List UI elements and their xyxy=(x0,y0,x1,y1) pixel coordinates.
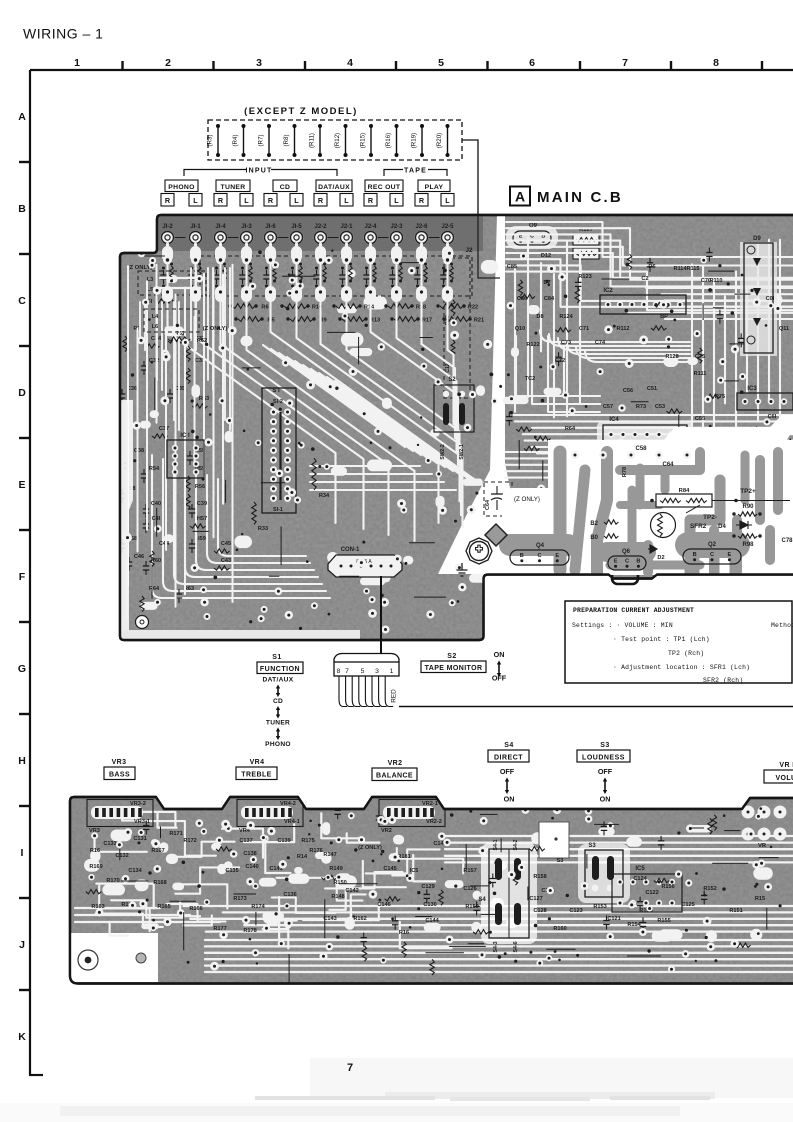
wire hbundle top 2 xyxy=(506,234,793,286)
svg-text:S2: S2 xyxy=(447,653,457,660)
diamond pad (Z only) xyxy=(485,524,507,546)
junction xyxy=(651,458,653,460)
junction xyxy=(287,856,290,859)
junction xyxy=(311,447,315,451)
etched halo S3 xyxy=(578,844,630,903)
diode D4 xyxy=(718,521,752,530)
svg-text:L4: L4 xyxy=(152,314,159,320)
resistor R13 xyxy=(342,317,365,322)
svg-text:R175: R175 xyxy=(301,838,314,844)
wire corner curve 4 xyxy=(196,471,314,570)
node xyxy=(625,359,634,368)
junction jack J2-5 xyxy=(446,258,449,261)
resistor column 0 xyxy=(170,266,174,280)
junction xyxy=(146,899,149,902)
capacitor C46 xyxy=(126,557,132,571)
resistor column 5 xyxy=(299,266,303,280)
node xyxy=(261,606,268,613)
node S1 pin R1 xyxy=(284,418,291,425)
node xyxy=(639,335,648,344)
junction xyxy=(373,280,376,283)
node xyxy=(712,485,720,493)
svg-text:JI-2: JI-2 xyxy=(162,224,173,230)
svg-text:5: 5 xyxy=(438,57,444,69)
pad cluster xyxy=(645,509,657,520)
node xyxy=(284,903,290,909)
node xyxy=(665,336,672,343)
node CON-1 pin 2 xyxy=(347,562,354,569)
wire link xyxy=(725,380,739,382)
resistor R11 xyxy=(309,124,323,157)
mount hole (upper board) xyxy=(136,616,149,629)
wire jack JI-2 lead xyxy=(166,244,169,258)
svg-text:C38: C38 xyxy=(134,448,144,454)
resistor mark xyxy=(86,889,102,893)
capacitor mark xyxy=(647,258,653,272)
capacitor mark xyxy=(601,821,607,835)
svg-text:8: 8 xyxy=(337,668,341,675)
wire column JI-4 run xyxy=(221,252,389,535)
svg-text:ON: ON xyxy=(504,795,515,804)
wire vdrop 4 xyxy=(735,271,737,465)
pot VR3 pins xyxy=(87,800,153,835)
svg-text:R158: R158 xyxy=(533,874,546,880)
node xyxy=(650,528,658,536)
node xyxy=(154,599,161,606)
svg-text:C137: C137 xyxy=(239,838,252,844)
wire midblock 4 xyxy=(580,336,600,404)
capacitor C36 xyxy=(119,389,125,403)
svg-text:C135: C135 xyxy=(225,868,238,874)
junction xyxy=(685,929,688,932)
junction xyxy=(667,345,670,348)
node xyxy=(378,343,386,351)
junction xyxy=(362,541,365,544)
etched white zone bottom-right xyxy=(548,415,793,575)
resistor mark xyxy=(430,959,434,975)
node S1 pin R3 xyxy=(284,437,291,444)
junction xyxy=(286,307,290,311)
svg-text:2: 2 xyxy=(165,57,171,69)
pad cluster xyxy=(393,835,404,845)
node xyxy=(675,870,682,877)
wire hbundle top 7 xyxy=(506,265,793,301)
junction xyxy=(162,285,165,288)
junction xyxy=(198,263,201,266)
svg-text:S4-6: S4-6 xyxy=(513,941,519,952)
node xyxy=(255,440,261,446)
svg-text:R14: R14 xyxy=(364,305,375,311)
resistor column 4 xyxy=(273,266,277,280)
pad keyhole2 jack J2-2 xyxy=(315,286,326,302)
junction xyxy=(341,285,344,288)
node xyxy=(585,815,592,822)
capacitor C35 xyxy=(167,389,173,403)
capacitor R58 xyxy=(119,539,125,553)
node xyxy=(406,875,413,882)
wire bundle 3 xyxy=(244,924,793,926)
copper finger xyxy=(709,530,719,572)
node IC5 pin top 4 xyxy=(669,879,675,885)
resistor R20 xyxy=(436,124,450,157)
svg-text:R168: R168 xyxy=(153,880,166,886)
diode D2 xyxy=(648,545,665,561)
node xyxy=(391,853,400,862)
pad cluster xyxy=(430,429,440,437)
wire midblock 3 xyxy=(564,346,600,396)
svg-text:8: 8 xyxy=(713,57,719,69)
node xyxy=(397,499,406,508)
node CON-1 pin 3 xyxy=(357,562,364,569)
pot VR4 TREBLE label xyxy=(236,759,277,780)
node xyxy=(469,391,476,398)
wire maze 0 xyxy=(325,872,402,888)
svg-text:R122: R122 xyxy=(526,342,539,348)
junction xyxy=(354,848,357,851)
pad cluster xyxy=(663,355,678,367)
svg-text:VR I: VR I xyxy=(779,762,793,769)
wire link xyxy=(631,401,649,403)
resistor R18 xyxy=(388,304,411,309)
svg-text:C130: C130 xyxy=(423,902,436,908)
svg-text:R22: R22 xyxy=(468,305,478,311)
junction xyxy=(247,368,250,371)
svg-text:IC I: IC I xyxy=(180,433,190,439)
junction xyxy=(548,917,551,920)
svg-text:R128: R128 xyxy=(665,354,678,360)
wire link xyxy=(261,482,285,484)
node xyxy=(580,504,587,511)
junction xyxy=(241,285,244,288)
S1 arrow 2 xyxy=(277,709,279,716)
node xyxy=(137,337,145,345)
pad cluster xyxy=(348,270,356,278)
svg-text:D4: D4 xyxy=(718,524,726,530)
junction xyxy=(291,285,294,288)
junction xyxy=(299,281,302,284)
junction xyxy=(462,304,465,307)
node S1 pin L9 xyxy=(270,495,277,502)
pad cluster xyxy=(364,296,387,310)
svg-text:VR2-1: VR2-1 xyxy=(422,801,438,807)
pot VR2 BALANCE label xyxy=(372,760,417,781)
node S1 pin R7 xyxy=(284,476,291,483)
border frame top line xyxy=(30,69,793,71)
switch S1 (on board) xyxy=(262,388,296,513)
node xyxy=(286,290,293,297)
junction jack2 JI-3 xyxy=(245,290,248,293)
wire lower-left 13 xyxy=(329,882,345,910)
junction xyxy=(754,885,757,888)
node xyxy=(279,860,287,868)
svg-text:(R11): (R11) xyxy=(309,133,316,148)
junction xyxy=(260,317,263,320)
junction xyxy=(365,285,368,288)
wire column JI-5 run xyxy=(297,252,463,528)
junction xyxy=(639,444,641,446)
node xyxy=(250,856,257,863)
svg-text:R111: R111 xyxy=(694,371,707,377)
capacitor C21 xyxy=(414,270,420,284)
svg-text:TC2: TC2 xyxy=(525,376,536,382)
node xyxy=(267,827,275,835)
node xyxy=(425,457,432,464)
wire mid bundle 0 xyxy=(445,835,793,837)
pad cluster xyxy=(463,479,483,486)
svg-text:CD: CD xyxy=(273,698,283,705)
wire corner curve 1 xyxy=(163,459,326,591)
junction xyxy=(373,263,376,266)
wire hbundle top2 5 xyxy=(665,318,793,320)
border frame left line xyxy=(29,70,31,1075)
junction xyxy=(397,860,400,863)
junction xyxy=(190,285,193,288)
node xyxy=(478,846,487,855)
node xyxy=(599,492,608,501)
svg-text:S3: S3 xyxy=(600,742,610,749)
resistor R15 xyxy=(360,124,374,157)
node S1 pin L7 xyxy=(270,476,277,483)
node xyxy=(719,358,726,365)
node xyxy=(224,825,232,833)
svg-text:R14: R14 xyxy=(297,854,308,860)
node jack J2-6 pad xyxy=(417,256,426,265)
junction xyxy=(744,508,748,512)
copper finger xyxy=(636,468,645,505)
switch S4 DIRECT label xyxy=(488,742,529,762)
node xyxy=(142,299,149,306)
resistor mark xyxy=(473,930,489,934)
svg-text:· Test point : TP1 (Lch): · Test point : TP1 (Lch) xyxy=(613,636,710,643)
pad cluster xyxy=(140,602,158,610)
svg-text:R170: R170 xyxy=(106,878,119,884)
capacitor C5 xyxy=(213,270,219,284)
svg-text:C55: C55 xyxy=(695,416,705,422)
node xyxy=(124,828,132,836)
svg-text:R: R xyxy=(268,196,274,205)
junction xyxy=(349,263,352,266)
wire link xyxy=(420,337,433,339)
junction xyxy=(510,411,513,414)
svg-text:TREBLE: TREBLE xyxy=(241,772,271,779)
node xyxy=(260,834,267,841)
node xyxy=(204,899,210,905)
svg-text:R148: R148 xyxy=(331,894,344,900)
junction xyxy=(148,318,151,321)
junction xyxy=(420,416,422,418)
node IC4 pin 7 xyxy=(680,431,686,437)
svg-text:R54: R54 xyxy=(149,466,160,472)
node xyxy=(226,417,233,424)
pad cluster xyxy=(580,470,598,480)
node xyxy=(701,257,707,263)
node xyxy=(149,262,156,269)
wire corner right 0 xyxy=(540,330,690,342)
capacitor C64 dashed xyxy=(484,482,512,516)
wire diagonal 1 xyxy=(271,349,413,451)
junction jack2 J2-2 xyxy=(319,290,322,293)
svg-text:I59: I59 xyxy=(198,536,206,542)
junction xyxy=(750,289,753,292)
etched halo S4 xyxy=(481,843,537,944)
wire link xyxy=(653,553,690,555)
svg-text:R157: R157 xyxy=(463,868,476,874)
svg-text:VR4: VR4 xyxy=(250,759,265,766)
node xyxy=(717,377,724,384)
svg-text:SW2-1: SW2-1 xyxy=(459,444,465,460)
junction xyxy=(732,534,735,537)
svg-text:C39: C39 xyxy=(197,501,207,507)
junction xyxy=(370,441,373,444)
junction xyxy=(457,600,460,603)
copper finger xyxy=(732,520,742,572)
junction xyxy=(454,520,457,523)
resistor mark xyxy=(575,288,579,304)
wire ul pair a4 xyxy=(207,268,209,380)
resistor mark xyxy=(529,847,545,851)
node xyxy=(682,950,690,958)
node IC2 pin 3 xyxy=(629,301,635,307)
node xyxy=(342,313,348,319)
node S1 pin R9 xyxy=(284,495,291,502)
junction xyxy=(273,263,276,266)
etched white channel xyxy=(438,215,514,574)
node xyxy=(221,820,230,829)
pad cluster xyxy=(259,878,277,887)
junction xyxy=(323,263,326,266)
junction xyxy=(677,831,680,834)
pad cluster xyxy=(652,931,673,942)
node IC1 pin L1 xyxy=(172,453,178,459)
node xyxy=(628,901,635,908)
S2 arrow xyxy=(498,664,500,675)
svg-text:VR2: VR2 xyxy=(381,828,392,834)
svg-text:C131: C131 xyxy=(133,836,146,842)
node xyxy=(204,613,211,620)
svg-text:R112: R112 xyxy=(616,326,629,332)
junction xyxy=(330,841,333,844)
wire bottom bundle 5 xyxy=(205,971,793,973)
note box PREPARATION CURRENT ADJUSTMENT xyxy=(565,601,793,684)
junction xyxy=(299,627,302,630)
svg-text:R110: R110 xyxy=(709,278,722,284)
svg-text:C84: C84 xyxy=(544,296,555,302)
resistor mark xyxy=(402,942,406,958)
pad keyhole jack J2-1 xyxy=(341,246,352,262)
wire lower-left 19 xyxy=(279,917,335,939)
wire jack J2-4 lead xyxy=(369,244,372,258)
wire link xyxy=(710,485,712,516)
resistor R80 zig xyxy=(604,534,618,538)
junction xyxy=(757,932,760,935)
pad cluster xyxy=(753,867,773,880)
node xyxy=(703,917,712,926)
svg-text:VR: VR xyxy=(758,843,767,849)
node xyxy=(294,496,301,503)
capacitor mark xyxy=(706,248,712,262)
resistor mark xyxy=(712,815,716,831)
node xyxy=(123,533,132,542)
pad keyhole jack JI-4 xyxy=(215,246,226,262)
capacitor mark xyxy=(424,889,430,903)
svg-text:L: L xyxy=(294,196,299,205)
junction xyxy=(442,285,445,288)
pad cluster xyxy=(445,880,464,888)
junction xyxy=(318,465,321,468)
junction xyxy=(288,274,290,276)
svg-text:DAT/AUX: DAT/AUX xyxy=(318,184,350,191)
wire except-z over board xyxy=(478,215,500,278)
wire maze 3 xyxy=(175,842,234,857)
svg-text:SW2-2: SW2-2 xyxy=(440,444,446,460)
pad cluster xyxy=(490,898,504,909)
capacitor mark xyxy=(361,933,367,947)
node xyxy=(458,583,466,591)
wire vertical left 8 xyxy=(203,274,205,479)
node xyxy=(325,256,333,264)
node zone pad 0 xyxy=(571,451,579,459)
resistor column 10 xyxy=(424,266,428,280)
wire link xyxy=(234,893,256,895)
svg-text:(R19): (R19) xyxy=(411,133,418,148)
junction jack JI-4 xyxy=(219,258,222,261)
transistor Q4 body xyxy=(510,550,569,565)
capacitor mark xyxy=(717,310,723,324)
resistor R19 xyxy=(411,124,425,157)
svg-text:A: A xyxy=(515,189,525,205)
junction xyxy=(613,325,616,328)
resistor R6 xyxy=(232,304,255,309)
node CON-1 pin 5 xyxy=(377,562,384,569)
svg-text:E: E xyxy=(728,552,732,558)
junction jack JI-5 xyxy=(295,258,298,261)
resistor mark xyxy=(362,946,366,962)
resistor mark xyxy=(667,409,683,413)
ruler left ticks xyxy=(19,162,30,990)
capacitor S8 xyxy=(119,489,125,503)
svg-text:A: A xyxy=(18,111,26,123)
node xyxy=(154,525,162,533)
wire corner curve 6 xyxy=(218,479,306,556)
junction xyxy=(548,284,551,287)
svg-text:S4: S4 xyxy=(478,897,486,903)
node xyxy=(768,302,775,309)
IC5 xyxy=(612,866,682,912)
svg-text:C139: C139 xyxy=(277,838,290,844)
svg-text:CON-1: CON-1 xyxy=(341,547,360,553)
junction xyxy=(358,304,361,307)
wire link xyxy=(255,912,257,926)
node xyxy=(455,563,464,572)
junction xyxy=(535,332,538,335)
wire link xyxy=(678,415,680,447)
junction xyxy=(338,317,341,320)
svg-text:J2-3: J2-3 xyxy=(390,224,403,230)
junction xyxy=(151,361,154,364)
wire vertical left 1 xyxy=(137,329,139,552)
resistor mark xyxy=(708,819,712,835)
wire link xyxy=(699,540,730,542)
junction xyxy=(399,280,402,283)
wire link xyxy=(470,885,489,887)
junction xyxy=(779,904,782,907)
node IC4 pin 2 xyxy=(620,431,626,437)
junction xyxy=(443,269,447,273)
svg-text:S I: S I xyxy=(272,388,280,394)
node xyxy=(521,806,529,814)
junction xyxy=(331,250,333,252)
junction jack2 JI-6 xyxy=(269,290,272,293)
